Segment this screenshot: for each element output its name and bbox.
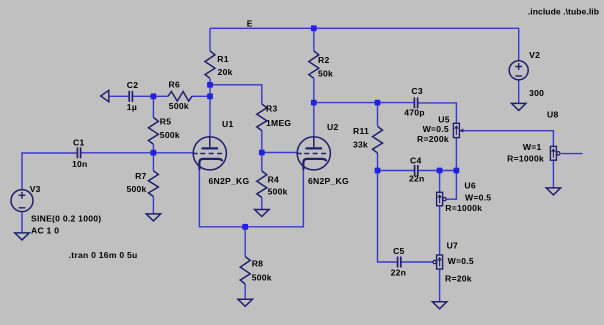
svg-text:470p: 470p [404,108,425,118]
svg-text:R=20k: R=20k [445,274,472,284]
svg-text:10n: 10n [72,159,88,169]
junction [311,100,317,106]
svg-text:R5: R5 [160,117,172,127]
svg-text:W=1: W=1 [523,142,542,152]
resistor R5 [148,118,158,145]
junction [437,168,443,174]
svg-text:R=1000k: R=1000k [507,153,544,163]
potentiometer U6 [437,192,447,206]
potentiometer U8 [550,146,560,160]
svg-text:C3: C3 [411,86,423,96]
ground below V3 [15,233,29,240]
svg-text:500k: 500k [169,101,189,111]
wire R5 bottom [152,144,154,153]
svg-text:V3: V3 [30,184,41,194]
svg-text:20k: 20k [218,67,233,77]
svg-text:.include .\tube.lib: .include .\tube.lib [528,7,599,17]
ground below R8 [238,299,252,306]
svg-text:SINE(0 0.2 1000): SINE(0 0.2 1000) [31,214,101,224]
svg-text:W=0.5: W=0.5 [423,124,449,134]
wire R4 to ground [261,198,263,210]
svg-text:6N2P_KG: 6N2P_KG [209,176,250,186]
ground below V2 [512,103,526,110]
resistor R7 [148,171,158,197]
ground below R7 [146,214,160,221]
wire R3 bottom [261,131,263,153]
junction [207,82,213,88]
junction [242,224,248,230]
wire arrow to C2 [109,95,129,97]
wire U6 to U7 [439,206,441,255]
svg-text:U1: U1 [222,119,234,129]
svg-text:C5: C5 [393,246,405,256]
capacitor C4 [415,165,418,176]
wire R7 to ground [152,197,154,214]
svg-text:300: 300 [529,88,544,98]
svg-text:E: E [247,18,253,28]
wire U8 wiper out [561,153,582,155]
wire R11 to C5 [378,153,398,262]
wire node to U6 top [439,171,441,193]
svg-text:R8: R8 [252,258,264,268]
svg-text:W=0.5: W=0.5 [448,256,474,266]
wire node to C3 [314,102,414,104]
junction [151,150,157,156]
wire cathode rail [199,170,303,227]
wire node to R11 [377,103,379,127]
svg-text:R3: R3 [266,104,278,114]
voltage source V3 [11,190,33,212]
resistor R11 [373,126,383,153]
ground below U7 [432,302,446,309]
voltage source V2 [509,61,528,80]
svg-text:W=0.5: W=0.5 [465,192,491,202]
svg-text:50k: 50k [318,69,333,79]
wire to C4 [378,170,415,172]
resistor R1 [205,51,215,78]
svg-text:C1: C1 [73,138,85,148]
svg-text:500k: 500k [160,130,180,140]
wire V3 to ground [21,212,23,233]
svg-text:.tran 0 16m 0 5u: .tran 0 16m 0 5u [69,250,138,260]
junction [207,93,213,99]
wire C3 to U5 [418,103,457,123]
svg-text:22n: 22n [409,174,425,184]
wire node to R5 [152,96,154,117]
wire R6 to node [192,95,210,97]
triode U2 [297,137,330,170]
svg-text:500k: 500k [268,186,288,196]
svg-text:U8: U8 [547,109,559,119]
wire to U2 grid [262,152,298,154]
wire R2 to U2 plate [313,78,315,137]
svg-text:V2: V2 [529,50,540,60]
wire R1 top [209,28,211,51]
wire C1 to U1 grid [81,152,193,154]
svg-text:R1: R1 [217,54,229,64]
junction [454,168,460,174]
capacitor C5 [398,257,401,268]
resistor R3 [257,104,267,131]
wire R1 bottom to U1 plate [209,78,211,137]
svg-text:R11: R11 [353,126,369,136]
resistor R4 [257,171,267,198]
svg-text:500k: 500k [252,272,272,282]
svg-text:1MEG: 1MEG [266,118,291,128]
wire node to R3 top [210,85,262,104]
resistor R2 [309,51,319,78]
potentiometer U7 [433,255,443,269]
junction [151,93,157,99]
resistor R8 [240,257,250,285]
svg-text:R4: R4 [268,175,280,185]
wire node to R7 [152,153,154,171]
capacitor C3 [414,97,417,108]
wire V2 to ground [518,80,520,104]
svg-text:R6: R6 [169,80,181,90]
svg-text:C4: C4 [410,156,422,166]
junction [375,168,381,174]
wire node to R4 [261,153,263,172]
capacitor C2 [129,91,132,102]
wire rail to R2 [313,28,315,51]
capacitor C1 [77,147,80,158]
svg-text:1µ: 1µ [127,102,137,112]
wire R8 to ground [244,284,246,299]
svg-text:500k: 500k [126,184,146,194]
svg-text:C2: C2 [127,80,139,90]
svg-text:U7: U7 [447,240,459,250]
ground below R4 [255,210,269,217]
wire U8 to ground [552,160,554,188]
wire top rail E [210,28,519,61]
wire C4 to node [418,170,456,172]
wire V3 to C1 [22,153,77,190]
svg-text:R7: R7 [135,171,147,181]
junction [259,150,265,156]
input port arrow [101,90,109,101]
wire C5 to U7 wiper [401,261,433,263]
junction [311,25,317,31]
svg-text:R=200k: R=200k [417,134,449,144]
potentiometer U5 [453,123,463,137]
wire U7 to ground [439,269,441,302]
svg-text:R=1000k: R=1000k [445,203,482,213]
wire U5 bottom to node [455,138,457,171]
svg-text:33k: 33k [353,140,368,150]
svg-text:U2: U2 [327,122,339,132]
resistor R6 [168,92,192,102]
junction [375,100,381,106]
svg-text:AC 1 0: AC 1 0 [31,225,59,235]
svg-text:6N2P_KG: 6N2P_KG [308,176,349,186]
svg-text:U6: U6 [464,181,476,191]
wire node to R8 [244,227,246,257]
ground below U8 [546,188,560,195]
svg-text:22n: 22n [391,268,407,278]
wire C2 to R6 [133,95,168,97]
triode U1 [193,137,226,170]
wire node to U6 wiper [446,171,456,200]
wire U5 wiper to U8 [460,131,554,147]
svg-text:R2: R2 [318,55,330,65]
